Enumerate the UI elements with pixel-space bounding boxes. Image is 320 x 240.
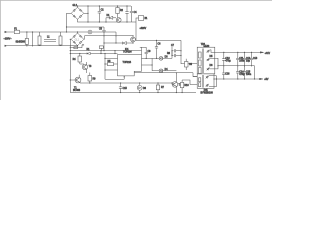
wire to opto diode 2 bbox=[152, 70, 176, 72]
resistor R4 bbox=[78, 56, 82, 62]
IC left pins bbox=[105, 54, 118, 80]
node riser at L line bbox=[66, 31, 67, 32]
capacitor C4 top right bbox=[130, 6, 133, 22]
left big vertical bbox=[69, 39, 71, 92]
diode D1 bbox=[106, 17, 116, 19]
node sec2 mid bbox=[217, 65, 218, 66]
svg-text:R4: R4 bbox=[73, 59, 77, 61]
riser rails bbox=[100, 51, 102, 54]
terminal L bbox=[5, 31, 7, 32]
capacitor C5 bulk bbox=[102, 27, 105, 51]
node varistor bottom bbox=[26, 45, 27, 46]
arrow out1 bbox=[260, 52, 263, 53]
node D3 bbox=[115, 42, 116, 43]
wire L line bbox=[7, 32, 117, 36]
elco C15b bbox=[243, 66, 246, 79]
node clamp top bbox=[180, 50, 181, 51]
resistor R2 bbox=[116, 8, 119, 14]
capacitor C15 riser bbox=[119, 83, 122, 93]
svg-text:C8: C8 bbox=[189, 64, 193, 66]
svg-text:~230V~: ~230V~ bbox=[4, 39, 13, 41]
capacitor C1 vertical bbox=[32, 32, 34, 46]
IC bottom pin bbox=[105, 76, 124, 79]
node out top bbox=[87, 5, 88, 6]
wire D3 riser bbox=[115, 36, 117, 43]
node C2 top bbox=[99, 5, 100, 6]
svg-text:T3: T3 bbox=[89, 66, 92, 68]
diode D8 in box bbox=[206, 67, 211, 71]
node bridge2 top bbox=[77, 31, 78, 32]
box D2 small bbox=[139, 16, 144, 21]
elco C12 bbox=[243, 52, 246, 65]
TR1 primary windings bbox=[199, 52, 202, 58]
elco C13 bbox=[250, 52, 253, 65]
svg-text:C16: C16 bbox=[225, 74, 230, 76]
elco C16 bbox=[222, 66, 225, 79]
svg-text:D1: D1 bbox=[107, 15, 111, 17]
node R2 top bbox=[117, 5, 118, 6]
lower core bbox=[202, 75, 203, 88]
resistor R5 on pin wire bbox=[108, 63, 114, 66]
svg-text:D8: D8 bbox=[143, 88, 147, 90]
wire to opto diode 1 bbox=[152, 57, 172, 59]
wire mid rail bbox=[85, 36, 134, 40]
opto pins left bbox=[190, 77, 197, 85]
svg-text:S14K300: S14K300 bbox=[16, 41, 26, 43]
node riser at rail27 bbox=[66, 26, 67, 27]
wire HV to transformer bbox=[136, 22, 197, 64]
diode circle D10 bbox=[159, 69, 163, 73]
svg-text:R9: R9 bbox=[93, 79, 97, 81]
svg-text:C13: C13 bbox=[253, 58, 258, 60]
diode small on neg wire bbox=[70, 44, 84, 49]
varistor R1 bbox=[25, 39, 28, 45]
border frame bbox=[0, 0, 272, 100]
transistor T5 bbox=[172, 82, 178, 88]
svg-text:C2: C2 bbox=[101, 10, 105, 12]
capacitor C2 bbox=[98, 6, 101, 22]
rail out2 (0V) bbox=[214, 78, 260, 80]
svg-text:TOP224: TOP224 bbox=[123, 62, 132, 64]
wire bridge1 out top bbox=[78, 6, 132, 22]
diode D9 in lower box bbox=[205, 75, 210, 79]
svg-text:EE30: EE30 bbox=[204, 46, 210, 48]
diode D7 in box bbox=[206, 57, 211, 61]
transistor T4 bottom left bbox=[75, 77, 81, 83]
LED circle bbox=[137, 85, 142, 90]
rail 320V bbox=[67, 26, 105, 28]
wire N line bbox=[7, 45, 78, 47]
vertical x172 bbox=[171, 51, 173, 59]
svg-text:BC368: BC368 bbox=[73, 90, 81, 92]
wire D2 stub bbox=[136, 18, 139, 22]
wire mid-bottom bbox=[81, 82, 172, 84]
rail A y50.6 bbox=[70, 47, 141, 54]
node C5 mid bbox=[103, 35, 104, 36]
fuse F1 bbox=[14, 30, 19, 33]
svg-text:C9: C9 bbox=[148, 51, 152, 53]
terminal N bbox=[5, 45, 7, 46]
node C3 top bbox=[126, 5, 127, 6]
lamp/ptc on L line bbox=[88, 30, 92, 34]
svg-text:C6: C6 bbox=[158, 44, 162, 46]
diode D10 in lower box bbox=[205, 83, 210, 87]
bridge rectifier GL1 lower diamond bbox=[70, 32, 84, 46]
node C2 bottom bbox=[99, 21, 100, 22]
svg-text:+5V: +5V bbox=[264, 79, 269, 81]
capacitor C9 right of IC bbox=[142, 47, 148, 58]
wire D1 left drop bbox=[105, 18, 107, 22]
transformer TR1 box upper bbox=[197, 47, 215, 74]
choke L1 winding right bbox=[59, 36, 62, 45]
opto pins right bbox=[209, 76, 217, 87]
bridge rectifier GL2 upper diamond bbox=[67, 7, 84, 19]
choke L1 winding left bbox=[38, 36, 41, 45]
node varistor top bbox=[26, 31, 27, 32]
svg-text:C7: C7 bbox=[171, 45, 175, 47]
svg-text:R2: R2 bbox=[120, 10, 124, 12]
elco C11 bbox=[236, 52, 239, 65]
elco C10 bbox=[222, 52, 225, 65]
wire bridge1 out bottom bbox=[78, 19, 137, 22]
TR1 core bbox=[202, 49, 203, 74]
elco C14 bbox=[236, 66, 239, 79]
rail mid bbox=[218, 66, 255, 79]
svg-text:BYW29/100: BYW29/100 bbox=[201, 92, 214, 94]
svg-text:C5: C5 bbox=[99, 28, 103, 30]
wire secondary 1 to rail bbox=[210, 50, 261, 53]
svg-text:470µ: 470µ bbox=[225, 61, 231, 63]
transformer TR1 box lower / opto bbox=[197, 74, 214, 88]
diode D3 bbox=[104, 42, 133, 44]
node C1 top bbox=[32, 31, 33, 32]
diode circle D9 bbox=[159, 57, 163, 61]
diode D4 on rail B bbox=[87, 52, 90, 54]
bus bottom bbox=[70, 92, 196, 94]
svg-text:GL2: GL2 bbox=[73, 5, 78, 7]
resistor R2b above rail bbox=[99, 46, 103, 49]
node C1 bottom bbox=[32, 45, 33, 46]
wire opto left lower bbox=[182, 80, 190, 85]
wire riser to upper section bbox=[66, 13, 68, 32]
node bridge2 bottom bbox=[77, 45, 78, 46]
svg-text:B1: B1 bbox=[145, 18, 149, 20]
IC U1 bbox=[118, 55, 142, 76]
svg-text:L1: L1 bbox=[47, 37, 50, 39]
zener box bbox=[88, 76, 92, 82]
choke L1 core bbox=[44, 40, 56, 42]
resistor riser bbox=[157, 83, 159, 93]
svg-text:10µ: 10µ bbox=[246, 60, 251, 62]
clamp caps near transformer bbox=[172, 47, 181, 56]
svg-text:R7: R7 bbox=[161, 87, 165, 89]
svg-text:TOP224: TOP224 bbox=[123, 51, 132, 53]
svg-text:C15: C15 bbox=[123, 88, 128, 90]
wire T3 base bbox=[80, 63, 84, 65]
resistor R10 riser bbox=[181, 82, 183, 92]
diode D6 in box bbox=[206, 49, 211, 53]
svg-text:100n: 100n bbox=[246, 74, 252, 76]
svg-text:GL1: GL1 bbox=[75, 39, 80, 41]
svg-text:R10: R10 bbox=[184, 85, 189, 87]
svg-text:+320V: +320V bbox=[140, 28, 147, 30]
transistor T1 bbox=[116, 18, 121, 23]
transistor T2 bbox=[131, 37, 136, 42]
rail B y53.5 bbox=[70, 53, 117, 55]
svg-text:+41V: +41V bbox=[265, 53, 271, 55]
node C3 bottom bbox=[126, 21, 127, 22]
node T2 top bbox=[132, 35, 133, 36]
capacitor C8 bbox=[185, 62, 189, 68]
capacitor C3 bbox=[125, 6, 128, 22]
IC right pin wires bbox=[134, 58, 197, 76]
transistor T3 bbox=[82, 64, 87, 69]
node snubber tap bbox=[156, 40, 157, 41]
svg-text:R8: R8 bbox=[167, 53, 171, 55]
wire secondary 2 bbox=[210, 58, 218, 69]
arrow out2 bbox=[260, 78, 263, 79]
snubber vertical x156.5 bbox=[155, 40, 158, 58]
lower windings bbox=[199, 78, 201, 82]
svg-text:C4: C4 bbox=[134, 12, 138, 14]
